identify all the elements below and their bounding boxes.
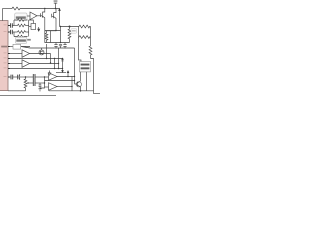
node E-bus3: [62, 58, 64, 60]
resistor R3: [18, 31, 26, 34]
wire R6 top: [45, 31, 56, 33]
node VDD junction: [55, 8, 56, 9]
wire bus line 5: [8, 68, 63, 70]
arrow net E: [62, 70, 64, 72]
wire mid drop: [50, 31, 52, 43]
wire C7 right: [35, 76, 49, 78]
node bus5-E: [62, 68, 63, 69]
node C-bus5: [54, 68, 55, 69]
node row2 jog: [44, 82, 45, 83]
capacitor C5: [11, 75, 13, 80]
IC pin name marks: [4, 25, 7, 77]
wire C2 to R3: [12, 31, 17, 33]
wire net drop to bus: [60, 27, 62, 44]
resistor R9: [79, 36, 91, 39]
wire U2 output: [37, 15, 41, 17]
wire bus line 2 into amp: [8, 53, 22, 55]
wire to resistor bank: [60, 26, 80, 28]
wire Y1 right / bus line 1: [21, 47, 75, 49]
wire row2: [28, 82, 33, 84]
node bus3-C: [54, 58, 55, 59]
wire arrow rail top: [59, 9, 61, 11]
capacitor C9: [39, 83, 42, 89]
wire center bus: [45, 42, 70, 44]
wire IC pin AOUT: [8, 76, 11, 78]
resistor R1: [12, 7, 20, 10]
vertical resistor R6: [45, 33, 48, 43]
wire mid rail step to edge: [94, 91, 101, 94]
IC U1 (pink block): [0, 21, 8, 91]
vertical resistor R11: [24, 77, 27, 91]
label box U5: [71, 29, 77, 34]
wire vertical net B: [50, 54, 52, 64]
op-amp U2: [30, 12, 37, 20]
op-amp U8: [49, 83, 58, 91]
wire U4 output: [30, 63, 59, 65]
wire U7 output: [57, 76, 75, 78]
node bus3-A: [46, 58, 47, 59]
node U7 out: [67, 76, 68, 77]
wire feedback bottom left: [13, 32, 15, 37]
capacitor C2: [11, 30, 13, 35]
node Q1 top junction: [44, 8, 45, 9]
wire R8-R9 left: [78, 27, 81, 38]
transistor M3 (boxed): [31, 24, 36, 30]
wire U8 output: [57, 86, 72, 88]
ground G2: [48, 71, 51, 76]
label X1: [27, 39, 31, 41]
wire coil elbow: [91, 59, 94, 92]
capacitor C8: [33, 80, 35, 86]
wire C6 right: [20, 76, 34, 78]
capacitor C6 (polarized): [18, 74, 20, 79]
transistor Q2: [52, 9, 56, 20]
wire U3 output: [30, 53, 51, 55]
wire C5-C6: [13, 76, 18, 78]
node row2: [27, 82, 28, 83]
wire jog to U8: [45, 86, 49, 88]
wire net vertical to C9: [40, 77, 45, 88]
wire box to op-amp: [27, 15, 30, 17]
node B-bus4: [50, 62, 51, 63]
wire right rail: [90, 27, 92, 47]
wire bus line 4 into amp: [8, 63, 22, 65]
resistor R8: [79, 25, 91, 28]
wire IC pin OSC1: [8, 25, 11, 27]
wire mid line: [45, 80, 75, 82]
wire mux line: [56, 72, 66, 74]
op-amp U7: [49, 73, 58, 81]
wire vertical net C: [54, 59, 56, 69]
capacitor C11 marks: [61, 60, 63, 61]
wire box stub right: [86, 72, 88, 91]
IC pin ticks: [8, 26, 10, 78]
node R11 top: [25, 76, 26, 77]
wire left drop to IC: [2, 9, 4, 21]
wire top rail right: [20, 8, 60, 10]
resistor R4: [14, 19, 28, 22]
capacitor C4: [63, 43, 66, 49]
vertical resistor R10: [89, 46, 92, 59]
wire bottom rail: [0, 94, 56, 96]
capacitor C10: [59, 44, 62, 48]
transistor Q5: [76, 82, 81, 87]
wire rail right drop: [59, 9, 61, 27]
node F2: [74, 80, 75, 81]
wire vertical net D: [58, 48, 60, 69]
transistor Q4 (circle): [39, 50, 44, 55]
wire IC pin XT: [8, 46, 13, 48]
capacitor C7: [33, 74, 35, 80]
node F1: [74, 76, 75, 77]
wire vertical net E: [62, 59, 64, 72]
ground G1: [38, 89, 41, 92]
label U5 text: [72, 30, 76, 32]
resistor R2: [18, 24, 26, 27]
node link: [55, 30, 56, 31]
node G1 top: [44, 76, 45, 77]
wire net F vertical: [74, 48, 76, 84]
node H1: [71, 86, 72, 87]
wire mid rail left segment: [8, 90, 26, 92]
op-amp U4: [22, 60, 30, 68]
node R7 top: [69, 26, 71, 28]
capacitor C1: [11, 23, 13, 28]
resistor R5: [14, 35, 28, 38]
wire IC pin OSC2: [8, 31, 11, 33]
wire link Q1-Q2: [45, 30, 56, 32]
wire arrow node: [67, 71, 69, 77]
IC pin name AIN (dark): [1, 46, 7, 48]
capacitor C3: [54, 43, 57, 49]
wire M3 top: [29, 20, 34, 24]
wire mid rail right segment: [49, 90, 94, 92]
node emitter-rail: [80, 90, 82, 92]
relay box U6: [80, 62, 91, 72]
label box FILTER: [15, 37, 26, 43]
wire Q2 source down: [56, 19, 61, 31]
transistor Q1: [41, 9, 45, 19]
wire box stub left / Q5 collector: [80, 72, 82, 81]
wire to M3: [29, 26, 31, 28]
crystal Y1: [13, 44, 21, 49]
node bus4-D: [58, 63, 59, 64]
wire left net to box: [79, 37, 82, 62]
wire vertical net A: [46, 44, 48, 59]
wire top rail left: [3, 8, 13, 10]
node drop-bus: [60, 42, 61, 43]
wire Q1 source down: [44, 19, 46, 43]
wire feedback top left: [13, 20, 15, 26]
node D-bus5: [58, 68, 59, 69]
wire bus line 3: [8, 58, 63, 60]
wire VDD drop: [55, 3, 57, 8]
wire C1 to R2: [12, 25, 17, 27]
vertical resistor R7: [68, 27, 71, 43]
power label VDD: [54, 0, 58, 2]
wire junction vertical: [28, 20, 30, 37]
op-amp U3: [22, 50, 30, 58]
wire R3 right: [26, 31, 29, 33]
label box OSC: [15, 13, 27, 20]
node drop top: [60, 26, 61, 27]
diode arrow D1: [38, 27, 40, 31]
wire R2 right: [26, 25, 29, 27]
wire net H vertical: [71, 77, 73, 92]
wire C8 right: [35, 82, 45, 84]
wire Q4 stub: [41, 48, 43, 50]
